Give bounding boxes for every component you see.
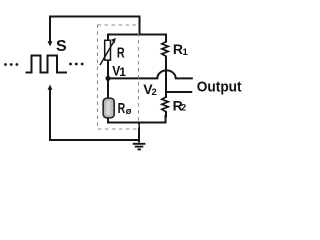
wire drop from top rail to node A [139,17,141,35]
svg-text:2: 2 [152,87,157,98]
svg-text:S: S [56,38,67,55]
variable resistor R arrow [100,42,114,65]
ellipsis dots right of waveform [69,63,83,66]
wire left drop to source arrow [49,17,51,42]
wire V1 to output with crossover hump [108,70,192,78]
wire bottom rail [50,88,139,140]
svg-text:1: 1 [119,65,126,79]
resistor R2 zigzag [162,97,168,112]
wire R1 to R2 (node V2 segment) [165,58,167,98]
ground symbol [133,144,146,150]
wire V2 to output [166,91,191,93]
square wave source symbol [27,56,67,73]
svg-text:Output: Output [197,79,242,96]
source arrowhead up (below waveform) [48,85,53,90]
svg-text:1: 1 [183,47,189,58]
ellipsis dots left of waveform [4,63,18,66]
svg-text:R: R [173,41,183,57]
wire ground drop [138,123,140,142]
wire top rail [50,16,140,18]
wire R2 bottom lead [165,112,167,117]
dashed probe enclosure box [98,25,139,129]
wire R top lead [107,35,109,41]
svg-text:R: R [118,100,126,117]
svg-text:2: 2 [181,103,186,114]
wire R1 top lead [165,35,167,42]
svg-text:ø: ø [126,106,132,117]
node V1 junction dot [106,76,111,81]
thermistor R0 body [103,98,114,118]
wire R to R0 (node V1 segment) [107,60,109,98]
wire node A rail (top of R to top of R1) [108,34,166,36]
svg-text:R: R [117,44,125,61]
wire R0 bottom to R2 bottom [108,116,166,123]
resistor R1 zigzag [162,42,168,58]
wire R0 bottom lead [107,118,109,123]
variable resistor R body [105,40,111,60]
source arrowhead down (at S) [48,41,53,46]
